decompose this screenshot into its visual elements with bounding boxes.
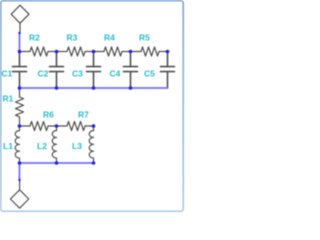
resistor R5 (131, 47, 168, 56)
resistor R4 (94, 47, 131, 56)
inductor L1 (15, 126, 19, 163)
svg-text:R3: R3 (67, 33, 78, 43)
capacitor C5 (161, 52, 175, 89)
svg-text:R2: R2 (29, 33, 40, 43)
inductor L2 (52, 126, 56, 163)
node row2 right (92, 124, 96, 128)
capacitor C1 (13, 52, 27, 89)
node bus1 left (18, 86, 22, 90)
wire port P1 to node 1 (19, 33, 21, 52)
node bus1 C3 (92, 86, 96, 90)
node top row 4 (129, 50, 133, 54)
svg-text:R1: R1 (3, 94, 14, 104)
svg-text:R5: R5 (139, 33, 150, 43)
resistor R3 (57, 47, 94, 56)
inductor L3 (89, 126, 93, 163)
node bus2 mid (55, 161, 59, 165)
junction port P2 lead (18, 179, 20, 181)
node bus2 right (92, 161, 96, 165)
node row2 left (18, 124, 22, 128)
capacitor C2 (50, 52, 64, 89)
resistor R7 (57, 122, 94, 131)
capacitor C3 (87, 52, 101, 89)
node top row 3 (92, 50, 96, 54)
port P1 (11, 5, 29, 33)
node bus1 C4 (129, 86, 133, 90)
node top row 2 (55, 50, 59, 54)
node top row 5 (166, 50, 170, 54)
port P2 (10, 180, 28, 208)
wire bus capacitors bottom (20, 87, 168, 89)
junction port P1 lead (18, 32, 20, 34)
svg-text:C2: C2 (38, 69, 49, 79)
wire bus inductors bottom (20, 162, 94, 164)
svg-text:L2: L2 (37, 141, 47, 151)
node bus2 left (18, 161, 22, 165)
svg-text:R4: R4 (104, 33, 115, 43)
capacitor C4 (124, 52, 138, 89)
wire node to port P2 (19, 163, 21, 180)
resistor R6 (20, 122, 57, 131)
resistor R2 (20, 47, 57, 56)
node bus1 C2 (55, 86, 59, 90)
svg-text:R6: R6 (43, 110, 54, 120)
svg-text:L3: L3 (72, 141, 82, 151)
svg-text:C3: C3 (72, 69, 83, 79)
svg-text:C4: C4 (110, 69, 121, 79)
svg-text:L1: L1 (3, 141, 13, 151)
node row2 mid (55, 124, 59, 128)
svg-text:C5: C5 (144, 69, 155, 79)
node top row 1 (18, 50, 22, 54)
resistor R1 (16, 88, 24, 126)
svg-text:R7: R7 (78, 110, 89, 120)
svg-text:C1: C1 (2, 69, 13, 79)
